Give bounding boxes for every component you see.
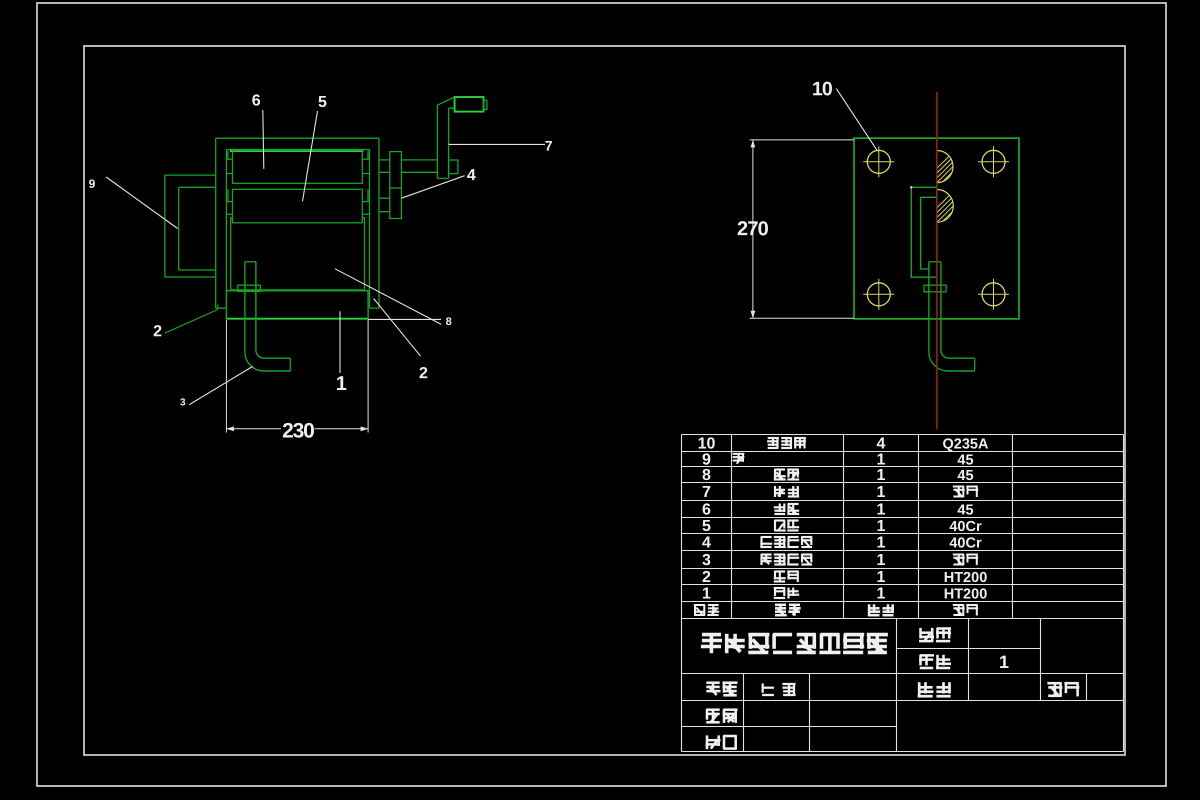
clamp outer <box>911 187 937 277</box>
plate rear view <box>854 138 1019 319</box>
比例 <box>919 628 951 642</box>
svg-text:1: 1 <box>702 585 711 602</box>
svg-text:1: 1 <box>877 518 886 535</box>
svg-text:2: 2 <box>419 365 428 382</box>
svg-text:3: 3 <box>180 397 186 408</box>
BOM row 4 <box>702 534 982 551</box>
BOM row 9 <box>702 451 974 468</box>
svg-text:3: 3 <box>702 552 711 569</box>
svg-text:40Cr: 40Cr <box>949 519 982 535</box>
J-bolt side view shaft <box>929 261 941 263</box>
crank arm <box>436 105 438 178</box>
svg-text:2: 2 <box>702 569 711 586</box>
svg-text:1: 1 <box>877 534 886 551</box>
title block grid <box>682 619 1124 752</box>
section cut red line <box>936 92 938 430</box>
svg-text:45: 45 <box>957 502 973 518</box>
dimension 270 extension lines <box>750 139 854 141</box>
dim 230 line <box>226 428 281 430</box>
BOM row 5 <box>702 518 982 535</box>
svg-text:4: 4 <box>702 534 711 551</box>
label 2 green leader <box>165 310 218 334</box>
svg-text:Q235A: Q235A <box>943 436 989 452</box>
label 6 leader <box>263 110 264 169</box>
svg-text:5: 5 <box>318 94 327 111</box>
svg-text:5: 5 <box>702 518 711 535</box>
材料 label <box>1047 683 1079 697</box>
hole bottom-right <box>978 279 1009 310</box>
svg-text:HT200: HT200 <box>944 570 988 586</box>
BOM row 1 <box>702 585 987 602</box>
BOM row 8 <box>702 467 974 484</box>
件数 <box>919 655 951 669</box>
BOM row 6 <box>702 501 974 518</box>
svg-text:1: 1 <box>999 652 1009 672</box>
roller 4 upper <box>233 150 363 183</box>
svg-text:8: 8 <box>702 467 711 484</box>
svg-text:8: 8 <box>446 316 452 328</box>
crank shaft <box>401 159 437 161</box>
svg-text:1: 1 <box>877 501 886 518</box>
BOM row 7 <box>702 484 978 501</box>
svg-text:10: 10 <box>698 435 716 452</box>
label 4 leader <box>402 176 465 199</box>
top roller bright edge <box>230 150 364 152</box>
svg-text:7: 7 <box>545 138 553 154</box>
svg-text:2: 2 <box>153 323 162 340</box>
svg-text:270: 270 <box>737 218 769 240</box>
svg-text:7: 7 <box>702 484 711 501</box>
shaft end cap <box>449 160 458 174</box>
赵 波 <box>762 683 796 695</box>
BOM table grid <box>682 435 1124 619</box>
label 2 white leader <box>374 299 421 357</box>
title 家用脱壳机装配图 <box>701 634 888 653</box>
svg-text:9: 9 <box>702 451 711 468</box>
svg-text:1: 1 <box>877 484 886 501</box>
J-bolt nut side view <box>924 285 946 292</box>
BOM row 2 <box>702 569 987 586</box>
svg-text:1: 1 <box>877 569 886 586</box>
label 7 leader <box>449 143 545 145</box>
svg-text:1: 1 <box>877 451 886 468</box>
base plate <box>226 291 368 319</box>
hopper outer <box>165 174 216 176</box>
label 9 leader <box>106 177 177 229</box>
dim 230 extension lines <box>225 320 227 433</box>
svg-text:1: 1 <box>877 467 886 484</box>
hole top-left <box>863 146 894 177</box>
svg-text:10: 10 <box>812 78 833 100</box>
svg-text:45: 45 <box>957 452 973 468</box>
shaft section lower (hatched semicircle) <box>923 189 1005 223</box>
svg-text:230: 230 <box>282 419 314 442</box>
dimension 270 line <box>752 140 754 318</box>
J-bolt front view <box>245 262 290 371</box>
svg-text:6: 6 <box>702 501 711 518</box>
clamp inner <box>921 197 937 269</box>
housing outer box <box>216 137 379 139</box>
gear <box>390 152 402 219</box>
label 1 leader <box>339 311 341 373</box>
hopper inner <box>179 186 216 188</box>
BOM header row <box>694 604 978 615</box>
BOM row 9 name (wrap) <box>733 453 745 464</box>
inner drawing frame <box>84 46 1125 755</box>
svg-text:4: 4 <box>467 167 476 184</box>
BOM row 3 <box>702 552 978 569</box>
bearing ticks upper roller <box>226 158 232 160</box>
svg-text:1: 1 <box>877 552 886 569</box>
svg-text:45: 45 <box>957 468 973 484</box>
svg-text:40Cr: 40Cr <box>949 535 982 551</box>
指导 <box>706 709 737 723</box>
label 5 leader <box>303 111 318 201</box>
hole top-right <box>978 146 1009 177</box>
upper shaft through wall <box>379 159 390 161</box>
roller 3 lower <box>233 189 363 223</box>
数量 label <box>918 682 951 697</box>
label 10 leader <box>836 89 877 151</box>
label 3 leader <box>189 366 252 404</box>
label 8 leaders <box>368 318 441 320</box>
svg-text:6: 6 <box>252 92 261 109</box>
制图 <box>706 682 737 696</box>
审核 <box>706 735 737 749</box>
bearing ticks lower roller <box>226 201 232 203</box>
svg-text:1: 1 <box>336 373 347 395</box>
svg-text:HT200: HT200 <box>944 586 988 602</box>
crank grip <box>455 97 484 112</box>
BOM row 10 <box>698 435 989 452</box>
hole bottom-left <box>863 279 894 310</box>
lower shaft through wall <box>379 197 390 199</box>
svg-text:9: 9 <box>89 177 96 191</box>
shaft section upper (hatched semicircle) <box>923 150 1004 183</box>
svg-text:4: 4 <box>877 435 886 452</box>
crushing chamber <box>230 218 232 290</box>
housing inner box <box>226 149 369 151</box>
J-bolt nut <box>238 285 260 291</box>
svg-text:1: 1 <box>877 585 886 602</box>
